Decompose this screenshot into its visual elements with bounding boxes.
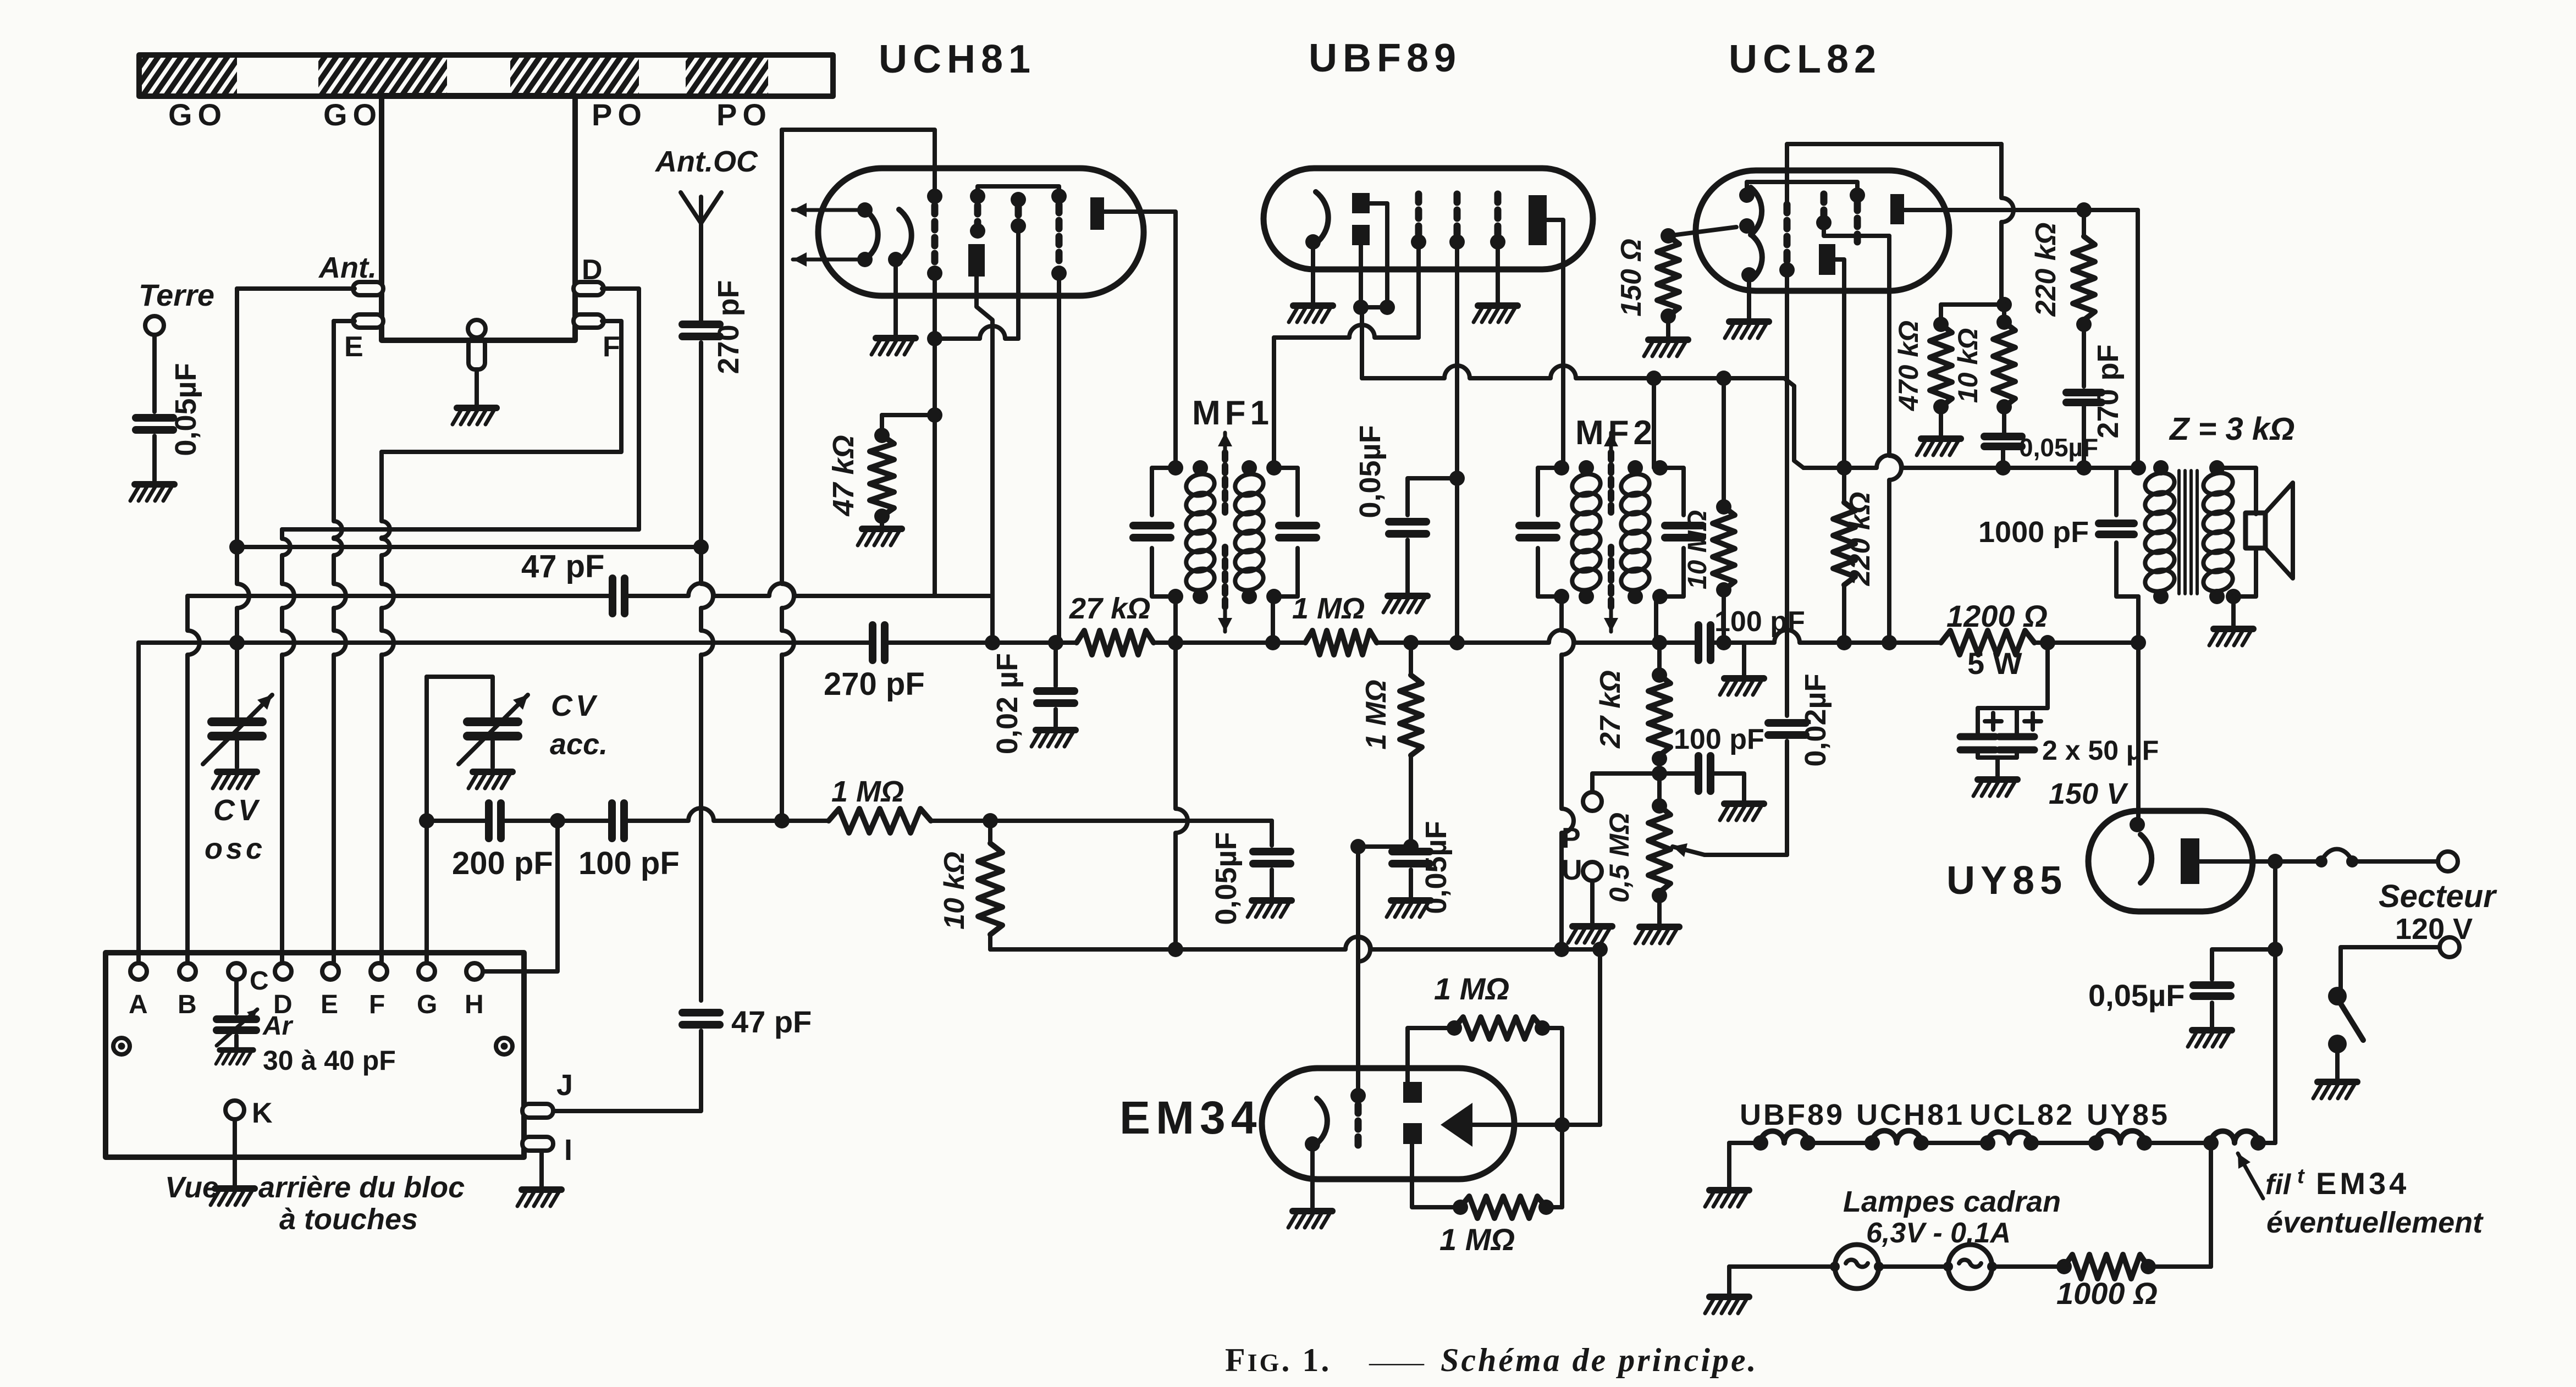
UCH81 top link <box>978 186 1059 196</box>
wire B vertical <box>187 596 200 962</box>
wire 10k to cap <box>2002 407 2006 433</box>
node Ant line-B <box>229 635 245 650</box>
wire B+ down <box>2136 643 2141 825</box>
svg-text:1000 pF: 1000 pF <box>1978 516 2089 549</box>
svg-text:Secteur: Secteur <box>2379 878 2497 914</box>
svg-text:I: I <box>564 1134 572 1167</box>
ground 47k <box>858 529 902 545</box>
UBF89 cathode <box>1316 192 1328 244</box>
antenna Ant OC <box>699 197 703 223</box>
svg-text:100 pF: 100 pF <box>578 846 680 881</box>
wire OT sec ground <box>2231 596 2236 627</box>
OT core <box>2177 471 2181 594</box>
ground pot <box>1635 927 1679 943</box>
wire capB stem <box>1270 821 1274 846</box>
wire line-C 4 <box>931 819 1272 823</box>
wire MF1sec to grid <box>1274 325 1419 338</box>
transformer MF2 <box>1538 468 1562 515</box>
wire line-B right2 <box>1154 640 1305 645</box>
wire MF2 prim bottom <box>1562 596 1574 949</box>
svg-text:F: F <box>369 990 385 1019</box>
svg-text:F: F <box>603 331 620 363</box>
node UBF89 g junction <box>1449 635 1465 650</box>
wire line-C 3 <box>625 808 829 821</box>
pin I <box>522 1137 553 1151</box>
wire D horizontal <box>282 527 639 532</box>
wire AF line y688 <box>1362 366 1784 378</box>
svg-text:5 W: 5 W <box>1967 646 2022 681</box>
wire MF1 prim bottom bus <box>1176 643 1188 949</box>
svg-text:1200 Ω: 1200 Ω <box>1946 599 2048 633</box>
svg-text:U: U <box>1562 854 1582 886</box>
svg-text:UCL82: UCL82 <box>1729 37 1882 81</box>
lamp 1 <box>1835 1245 1879 1289</box>
wire line-B left <box>139 640 871 645</box>
tube UCL82 envelope <box>1696 170 1949 291</box>
svg-text:UY85: UY85 <box>2087 1098 2170 1131</box>
svg-text:1 MΩ: 1 MΩ <box>1360 679 1392 749</box>
wire EM34 grid up <box>1358 847 1370 1096</box>
node divider top <box>1996 297 2012 312</box>
svg-text:0,05µF: 0,05µF <box>1210 832 1243 925</box>
UBF89 diode plate 1 <box>1352 193 1370 213</box>
pin F <box>573 314 604 328</box>
node H junction <box>550 813 565 828</box>
node PU line <box>1652 766 1667 781</box>
wire screen down <box>1889 236 1901 643</box>
wire UCL82 grid top loop <box>1787 144 2001 205</box>
svg-text:100 pF: 100 pF <box>1674 723 1764 755</box>
lamp 2 <box>1948 1245 1992 1289</box>
pin Ant <box>353 282 383 295</box>
capacitor 100pF (det) <box>1659 771 1698 776</box>
node 002uF junction <box>1048 635 1063 650</box>
resistor 470k <box>1933 317 1949 332</box>
wire g2 long down <box>1455 242 1459 643</box>
ground 100pF det <box>1720 804 1764 820</box>
svg-text:Schéma de principe.: Schéma de principe. <box>1441 1342 1758 1378</box>
svg-text:47 pF: 47 pF <box>521 549 605 584</box>
svg-text:10 kΩ: 10 kΩ <box>939 852 970 930</box>
wire MF1 sec bottom <box>1271 596 1275 643</box>
pin D <box>573 282 604 295</box>
UCL82 screen wire <box>1824 223 1889 236</box>
trimmer Ar wire <box>234 981 239 1013</box>
UCL82 cathode1 <box>1751 187 1762 235</box>
keyboard block box <box>106 953 524 1157</box>
EM34 plate 2 <box>1403 1123 1422 1144</box>
wire CV acc bridge <box>427 677 493 720</box>
svg-text:270 pF: 270 pF <box>2092 344 2125 438</box>
svg-text:220 kΩ: 220 kΩ <box>1844 492 1876 587</box>
ground 470k <box>1917 439 1961 455</box>
ground switch <box>2313 1082 2357 1098</box>
wire G vertical <box>424 677 429 962</box>
wire grid3 down <box>1016 226 1021 339</box>
svg-text:0,05µF: 0,05µF <box>1354 425 1387 518</box>
wire bias cap down <box>2001 449 2005 468</box>
svg-text:arrière du bloc: arrière du bloc <box>258 1171 465 1204</box>
wire MF2 sec bottom <box>1654 596 1658 643</box>
capacitor 100pF (line C) <box>608 803 616 838</box>
ground CV osc <box>213 772 257 788</box>
svg-text:GO: GO <box>323 97 382 132</box>
ground 150 <box>1644 340 1688 356</box>
UCH81 grid1 column <box>927 189 942 204</box>
pin E <box>353 314 383 328</box>
wire elco ground <box>1976 750 1980 758</box>
resistor 47k <box>880 415 884 435</box>
svg-text:220 kΩ: 220 kΩ <box>2030 223 2062 317</box>
EM34 cathode ground <box>1310 1148 1315 1209</box>
node 27k2 junction <box>1652 635 1667 650</box>
UBF89 cathode ground <box>1311 246 1315 303</box>
wire lamps mid <box>1879 1264 1948 1269</box>
UBF89 grid3 column <box>1494 194 1502 234</box>
tube UY85 envelope <box>2088 811 2253 911</box>
capacitor 0,02uF (AF) <box>1768 719 1806 727</box>
resistor 1200 <box>1941 631 2034 655</box>
wire 47k link <box>882 413 935 417</box>
wire 005uF-A link <box>1408 478 1457 515</box>
wire H up <box>484 821 558 971</box>
ground CV acc <box>468 772 512 788</box>
svg-text:Lampes cadran: Lampes cadran <box>1843 1185 2061 1218</box>
EM34 plate 1 <box>1403 1082 1422 1103</box>
svg-text:H: H <box>465 990 484 1019</box>
svg-text:E: E <box>344 331 363 363</box>
wire elco loop <box>1978 643 2048 734</box>
svg-text:0,02 µF: 0,02 µF <box>991 653 1024 754</box>
wire F run <box>382 321 621 452</box>
UCL82 top link <box>1747 182 1857 195</box>
svg-text:150 V: 150 V <box>2049 777 2128 810</box>
node bus MF1 <box>1168 942 1183 957</box>
wire 005uF5 link <box>2212 949 2275 980</box>
wire D vertical <box>282 529 290 572</box>
tube UBF89 envelope <box>1264 168 1593 269</box>
svg-text:0,05µF: 0,05µF <box>2088 978 2185 1013</box>
node g2 cap tap <box>1449 471 1465 486</box>
svg-text:0,02µF: 0,02µF <box>1799 673 1832 766</box>
svg-text:200 pF: 200 pF <box>452 846 553 881</box>
UCL82 cathode2 ground <box>1747 279 1751 319</box>
wire g4 screen down <box>1056 273 1059 643</box>
wire line-E <box>1803 455 2138 468</box>
wire UCL82 grid down <box>1785 270 1789 716</box>
wire I ground <box>539 1151 544 1187</box>
wire grid loop down <box>2001 144 2014 305</box>
OT primary coil <box>2143 470 2177 498</box>
screw left <box>113 1038 130 1054</box>
UCL82 grid3 column <box>1850 187 1865 203</box>
screw right <box>496 1038 512 1054</box>
wire PU link <box>1592 773 1659 792</box>
wire 002uF ground stem <box>1053 709 1058 728</box>
svg-text:fil: fil <box>2265 1169 2292 1201</box>
svg-text:UCH81: UCH81 <box>1856 1098 1965 1131</box>
resistor 1M (line B) <box>1305 631 1377 655</box>
trimmer Ar ground <box>234 1036 239 1048</box>
capacitor 270pF (Ant OC) <box>682 320 720 328</box>
svg-text:osc: osc <box>205 832 266 865</box>
node MF1 diode junction <box>1265 635 1281 650</box>
wire 1200 line <box>1889 640 1941 645</box>
wire lamps left <box>1729 1264 1836 1269</box>
svg-text:Z = 3 kΩ: Z = 3 kΩ <box>2169 411 2294 447</box>
svg-text:C: C <box>250 966 269 996</box>
capacitor 0,05uF (AGC) <box>1253 848 1290 855</box>
UCL82 anode1 rect <box>1819 244 1835 275</box>
resistor 10k (UCL82) <box>2002 305 2006 322</box>
wire Ant run <box>237 286 355 291</box>
UCH81 grid3 column <box>1011 192 1026 207</box>
terminal PU top <box>1583 792 1602 811</box>
wire line-B right4 <box>1659 640 1698 645</box>
wire E run <box>334 319 355 323</box>
capacitor 0,05uF (UBF89 screen) <box>1389 518 1426 526</box>
node lineE OT <box>2131 460 2146 476</box>
wire y616 <box>935 326 1018 339</box>
wire 005uF-A ground <box>1405 540 1410 594</box>
UCH81 grid4 column <box>1051 189 1067 204</box>
svg-text:à touches: à touches <box>279 1203 418 1236</box>
wire anode2 line <box>1904 208 2138 212</box>
wire EM34 out up <box>1598 949 1602 1125</box>
capacitor 0,05uF (grid leak) <box>1392 848 1430 855</box>
UBF89 grid2 column <box>1454 194 1461 234</box>
wire heater left ground <box>1727 1143 1731 1188</box>
svg-text:Vue: Vue <box>165 1171 219 1204</box>
wire UY85 anode out <box>2199 859 2275 864</box>
resistor 1000 <box>2056 1259 2072 1274</box>
block terminals A-H <box>130 963 147 980</box>
svg-text:120 V: 120 V <box>2395 913 2473 946</box>
svg-text:CV: CV <box>551 689 599 722</box>
resistor 27k (det) <box>1657 643 1662 675</box>
resistor 1M (line C) <box>829 809 931 833</box>
trimmer Ar <box>217 1015 256 1023</box>
UBF89 grid1 column <box>1415 194 1422 234</box>
svg-text:UCH81: UCH81 <box>879 37 1036 81</box>
wire K ground <box>233 1119 237 1186</box>
wire D run <box>602 289 639 529</box>
svg-text:G: G <box>417 990 437 1019</box>
svg-text:27 kΩ: 27 kΩ <box>1595 670 1626 749</box>
wire line-A left <box>188 594 611 598</box>
svg-text:1 MΩ: 1 MΩ <box>1434 971 1509 1006</box>
capacitor 0,05uF (mains) <box>2193 981 2231 989</box>
node osc grid y616 <box>927 331 942 346</box>
wire F vertical <box>382 452 390 572</box>
wire 10M top <box>1722 378 1726 507</box>
svg-text:EM34: EM34 <box>1119 1092 1262 1143</box>
node G gridline <box>419 813 434 828</box>
node lineC x1422 <box>774 813 790 828</box>
wire anode2 to MF1 <box>1104 212 1176 460</box>
wire AntOC cap down <box>701 342 713 1001</box>
UCL82 grid1 column <box>1784 205 1791 263</box>
terminal PU bottom <box>1583 862 1602 881</box>
wire secteur 2 <box>2341 947 2440 988</box>
OT primary box <box>2116 468 2138 515</box>
wire PU bottom ground <box>1590 881 1595 924</box>
wire UBF89 anode out <box>1547 220 1563 460</box>
wire capB ground <box>1270 870 1274 898</box>
wire Terre to cap <box>152 335 157 412</box>
svg-text:Ar: Ar <box>262 1012 294 1041</box>
OT secondary coil <box>2201 470 2235 498</box>
svg-text:P: P <box>1562 822 1581 854</box>
EM34 cathode <box>1317 1098 1327 1143</box>
wire line-A right <box>626 583 992 596</box>
node screen junction <box>1882 635 1897 650</box>
svg-text:0,5 MΩ: 0,5 MΩ <box>1604 813 1635 903</box>
terminal Terre <box>145 316 164 335</box>
UCH81 grid2 column <box>970 189 985 204</box>
wire A vertical <box>136 643 141 962</box>
wire diode AF down <box>1360 307 1364 378</box>
svg-text:——: —— <box>1369 1346 1425 1377</box>
wire 270pF fb down <box>2082 405 2086 468</box>
pot wiper <box>1673 847 1705 855</box>
svg-text:t: t <box>2297 1165 2305 1188</box>
wire 220k2 to cap <box>2082 324 2086 386</box>
capacitor 200pF <box>485 803 493 838</box>
EM34 1M upper loop <box>1408 1028 1454 1082</box>
svg-text:Ant.: Ant. <box>318 251 377 284</box>
svg-text:10 MΩ: 10 MΩ <box>1683 510 1712 589</box>
OT secondary wires <box>2217 468 2256 514</box>
wire 002uF2 down <box>1785 741 1789 855</box>
wire OT prim bottom <box>2136 596 2141 643</box>
svg-text:Ant.OC: Ant.OC <box>654 145 758 178</box>
wire E vertical <box>334 321 342 572</box>
svg-text:PO: PO <box>592 97 647 132</box>
wire 002uF stem <box>1053 643 1058 686</box>
resistor 27k (line B) <box>1077 631 1154 655</box>
svg-text:470 kΩ: 470 kΩ <box>1893 320 1924 411</box>
variable capacitor CV acc <box>467 717 518 726</box>
node 1M vert junction <box>1403 635 1419 650</box>
terminal secteur 2 <box>2440 937 2459 957</box>
svg-text:270 pF: 270 pF <box>824 666 925 702</box>
svg-text:1 MΩ: 1 MΩ <box>1292 592 1365 625</box>
svg-text:150 Ω: 150 Ω <box>1615 239 1647 317</box>
node bus MF2 <box>1554 942 1569 957</box>
svg-text:PO: PO <box>716 97 772 132</box>
wire 10M bottom <box>1722 590 1726 643</box>
svg-text:UCL82: UCL82 <box>1970 1098 2075 1131</box>
wire anode1 out <box>1835 259 1844 468</box>
variable capacitor CV osc <box>212 717 262 726</box>
capacitor 2x50uF <box>1960 733 1995 741</box>
wire triode anode down <box>977 277 992 643</box>
wire antenna line y995 <box>237 545 694 549</box>
svg-text:2 x 50 µF: 2 x 50 µF <box>2042 735 2159 766</box>
wire 005uF5 ground <box>2210 1003 2214 1028</box>
wire line-C 1 <box>427 819 488 823</box>
wire line-B right3 <box>1377 630 1659 643</box>
svg-text:CV: CV <box>213 794 261 827</box>
fuse <box>2275 859 2319 864</box>
ground 100pF MF2 <box>1720 678 1764 695</box>
tube EM34 envelope <box>1262 1068 1514 1179</box>
UBF89 anode rect <box>1529 195 1547 245</box>
resistor 10M <box>1713 507 1735 590</box>
UCH81 cathode <box>899 209 912 261</box>
wire gridleak ground <box>1409 870 1413 898</box>
node 47k tap <box>927 407 942 423</box>
resistor 220k (AF load) <box>1836 460 1852 476</box>
wire lamps to res <box>1992 1264 2064 1269</box>
UCH81 cathode ground <box>893 264 898 336</box>
svg-text:1 MΩ: 1 MΩ <box>1439 1222 1515 1257</box>
svg-text:270 pF: 270 pF <box>712 280 745 374</box>
UBF89 diode wires <box>1370 203 1387 307</box>
heater chain <box>1729 1141 1761 1145</box>
svg-text:E: E <box>321 990 338 1019</box>
ground under coil block <box>453 408 497 424</box>
node 10M top <box>1716 371 1731 386</box>
UBF89 g3 ground <box>1496 248 1500 303</box>
UCH81 heater arrows <box>793 208 865 212</box>
wire lamps right <box>2148 1264 2211 1269</box>
wire 1200 to OT <box>2034 640 2138 645</box>
EM34 grid column <box>1350 1088 1366 1103</box>
node 220k2 top <box>2076 202 2092 218</box>
svg-text:30 à 40 pF: 30 à 40 pF <box>263 1045 396 1076</box>
UCH81 anode1 rect <box>968 244 985 277</box>
resistor 150 <box>1661 228 1676 244</box>
capacitor 0,05uF (bias) <box>1984 433 2022 440</box>
resistor 1M vertical <box>1409 643 1413 675</box>
wire osc grid down <box>933 273 937 596</box>
node 005uF5 tap <box>2268 942 2283 957</box>
capacitor 270pF (line B) <box>869 625 876 660</box>
wire rectifier line down <box>2273 861 2277 1143</box>
svg-text:GO: GO <box>168 97 227 132</box>
wire 100pF to ground <box>1711 643 1744 676</box>
capacitor 100pF (MF2) <box>1695 625 1702 660</box>
resistor 220k (feedback) <box>2082 210 2086 236</box>
wire MF1 sec top <box>1272 338 1276 468</box>
wire osc loop top <box>782 130 935 196</box>
EM34 target triangle <box>1441 1103 1472 1147</box>
svg-text:J: J <box>556 1069 573 1102</box>
svg-text:A: A <box>129 990 148 1019</box>
svg-text:27 kΩ: 27 kΩ <box>1069 592 1150 625</box>
UCL82 grid2 column <box>1821 194 1828 215</box>
svg-text:K: K <box>252 1097 273 1129</box>
coil block box <box>382 96 575 340</box>
terminal secteur 1 <box>2438 852 2458 871</box>
wire 27k to pot <box>1657 759 1662 806</box>
node line-B anode junction <box>985 635 1000 650</box>
UCH81 anode2 rect <box>1090 197 1104 230</box>
node lineE 005 <box>1995 460 2011 476</box>
capacitor 270pF (feedback) <box>2066 389 2101 396</box>
node 10k top <box>983 813 998 828</box>
svg-text:B: B <box>178 990 197 1019</box>
UCL82 cathode2 <box>1752 235 1762 279</box>
svg-text:UBF89: UBF89 <box>1740 1098 1845 1131</box>
node Ant y995 <box>229 539 245 555</box>
capacitor 0,05uF (Terre) <box>136 414 173 422</box>
node bus EM34 <box>1592 942 1608 957</box>
wire line-B far right <box>1724 630 1889 643</box>
svg-text:MF1: MF1 <box>1192 394 1273 432</box>
